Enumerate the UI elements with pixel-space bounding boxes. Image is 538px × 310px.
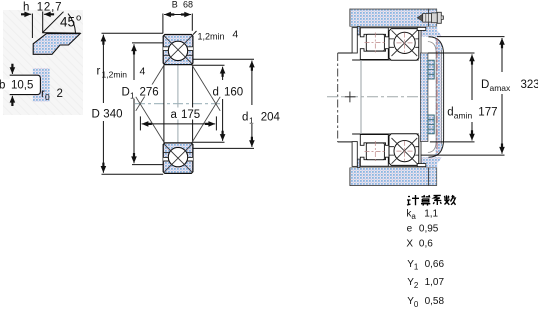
grease nipple (417, 12, 443, 23)
center vertical line (177, 61, 179, 148)
groove ring section body (33, 68, 50, 102)
svg-text:0: 0 (45, 92, 50, 102)
svg-text:0,66: 0,66 (425, 259, 445, 270)
label D 340 (91, 108, 123, 120)
housing top band (350, 9, 438, 27)
D_amax dim line (501, 38, 503, 72)
label d 160 (212, 85, 244, 97)
QJ bearing bottom (right drawing) (389, 134, 419, 166)
groove outline (10, 75, 41, 94)
svg-text:amax: amax (490, 83, 512, 93)
cover flange inner arc top (428, 42, 436, 54)
ball bottom (168, 147, 187, 166)
D top extension (102, 32, 164, 34)
housing-cover joint line top (428, 9, 430, 27)
contact X lines through bottom ball (164, 144, 192, 172)
gray panel top-left (3, 10, 83, 115)
d1 bottom extension (193, 147, 254, 149)
svg-text:1,2min: 1,2min (102, 70, 128, 80)
svg-text:177: 177 (478, 107, 497, 119)
svg-text:4: 4 (232, 28, 238, 40)
contact X lines through top ball (164, 36, 192, 64)
raceway gap left (top) (163, 47, 169, 50)
45 degree chamfer line (43, 12, 64, 33)
d_amin bottom extension (430, 141, 475, 143)
d bottom extension (193, 141, 225, 143)
housing shoulder top (357, 27, 360, 35)
svg-text:2: 2 (414, 281, 419, 290)
svg-text:204: 204 (261, 112, 281, 124)
svg-text:a: a (171, 109, 178, 121)
bolt circle dash-dot line (436, 38, 438, 156)
h arrow left (22, 13, 32, 15)
D1 dim line (133, 44, 135, 80)
svg-text:o: o (76, 13, 81, 24)
svg-text:X: X (406, 238, 413, 249)
bolt bottom (428, 115, 434, 134)
B ext line right (191, 14, 193, 31)
svg-text:1: 1 (130, 91, 135, 101)
b arrow top (11, 64, 13, 74)
B ext line left (162, 14, 164, 34)
spacer ring top (352, 28, 357, 53)
horizontal centerline (135, 103, 220, 105)
housing shoulder bottom (357, 159, 360, 167)
cover web strip (420, 53, 428, 142)
svg-text:D: D (481, 79, 489, 91)
cover flange strip edges (436, 50, 441, 144)
housing-cover joint line bottom (428, 168, 430, 186)
raceway gap right (top) (187, 47, 193, 50)
svg-text:r: r (97, 66, 101, 78)
算 (421, 195, 430, 206)
svg-text:D: D (92, 109, 100, 121)
svg-text:1: 1 (414, 263, 419, 272)
d_amin dim line (471, 54, 473, 100)
cover inner lip edge top (420, 30, 422, 53)
cover inner lip edge bottom (420, 142, 422, 164)
系 (433, 195, 441, 205)
leader 1,2min top right (193, 31, 197, 35)
svg-text:4: 4 (140, 66, 146, 78)
bore vertical line right (192, 65, 194, 143)
svg-text:323: 323 (521, 79, 538, 91)
b arrow bottom (11, 96, 13, 104)
D dim line (102, 35, 104, 103)
bottom ring block (163, 143, 193, 174)
raceway gap right (bottom) (187, 158, 193, 161)
cover corner section bottom (421, 157, 437, 167)
chamfer ring section body (33, 33, 80, 55)
contact line right-down (top ring to vertex) (192, 65, 221, 111)
d1 top extension (193, 58, 254, 60)
cylindrical roller bearing bottom (360, 135, 388, 167)
shaft shoulder top line (338, 52, 352, 54)
svg-text:0,58: 0,58 (425, 296, 445, 307)
cover flange outer outline (428, 37, 443, 158)
svg-text:160: 160 (224, 87, 243, 99)
housing bore line top (360, 27, 418, 29)
shaft end dash-dot line (337, 53, 339, 142)
svg-text:0,6: 0,6 (419, 238, 433, 249)
QJ bearing top (right drawing) (389, 29, 419, 61)
svg-text:a: a (411, 212, 416, 221)
B dim line with arrows (164, 14, 178, 16)
shaft seat line top (352, 59, 419, 61)
svg-text:45: 45 (60, 15, 75, 30)
svg-text:1,2min: 1,2min (198, 31, 225, 41)
cover flange curved section band (428, 32, 439, 163)
top ring block (163, 35, 193, 65)
contact line right-up (bottom ring to vertex) (192, 97, 221, 143)
svg-text:0,95: 0,95 (419, 223, 439, 234)
contact line left-down (top ring to vertex) (136, 65, 165, 111)
housing bore line bottom (360, 165, 418, 167)
title 计算系数 (drawn strokes) (407, 195, 456, 206)
svg-text:amin: amin (454, 111, 473, 121)
svg-text:276: 276 (140, 87, 159, 99)
svg-text:h: h (23, 2, 29, 14)
svg-text:0: 0 (414, 300, 419, 309)
d1 dim line (251, 61, 253, 105)
angle arc (68, 14, 76, 33)
svg-text:b: b (0, 80, 5, 92)
a dim line (142, 123, 178, 125)
label d_amin 177 (446, 105, 497, 119)
shaft step edge line (360, 60, 362, 134)
label D_amax 323 (480, 76, 502, 90)
h extension line 1 (31, 14, 33, 39)
cover lip top (417, 27, 426, 30)
svg-text:D: D (122, 87, 130, 99)
a ext line right (215, 116, 217, 130)
shaft seat line bottom (352, 133, 419, 135)
d top extension (193, 64, 225, 66)
bore vertical line left (163, 65, 165, 143)
h extension line 2 (42, 12, 44, 33)
d_amin top extension (428, 52, 475, 54)
a ext line left (139, 116, 141, 130)
label d1 204 (241, 110, 279, 123)
label b 10,5 (0, 80, 32, 91)
shaft shoulder (338, 53, 352, 142)
raceway gap left (bottom) (163, 158, 169, 161)
svg-text:1: 1 (249, 116, 254, 126)
svg-text:e: e (407, 223, 413, 234)
svg-text:1,07: 1,07 (425, 277, 445, 288)
d dim line (222, 67, 224, 80)
shaft body (352, 60, 430, 134)
bolt top (428, 60, 434, 79)
svg-text:12,7: 12,7 (37, 2, 63, 14)
spacer ring bottom (352, 142, 357, 167)
svg-text:d: d (447, 107, 453, 119)
D1 bottom extension (132, 164, 163, 166)
svg-text:1,1: 1,1 (424, 208, 438, 219)
svg-text:2: 2 (57, 88, 63, 100)
label a 175 (170, 108, 199, 120)
shaft shoulder bottom line (338, 141, 352, 143)
cylindrical roller bearing top (360, 28, 388, 60)
white outside bottom flange arc (428, 139, 448, 157)
svg-text:d: d (213, 87, 219, 99)
D bottom extension (102, 173, 164, 175)
svg-text:d: d (242, 112, 248, 124)
svg-text:340: 340 (103, 109, 122, 121)
cover flange inner arc bottom (428, 141, 436, 153)
white outside top flange arc (428, 37, 448, 55)
svg-text:68: 68 (183, 0, 193, 9)
contact line left-up (bottom ring to vertex) (136, 97, 165, 143)
cover lip bottom (417, 164, 426, 167)
D1 top extension (132, 42, 163, 44)
D_amax top extension (437, 36, 505, 38)
ball top (168, 41, 187, 60)
数 (444, 195, 456, 205)
cover corner section top (421, 27, 437, 37)
svg-text:10,5: 10,5 (11, 80, 33, 92)
h arrow right (44, 13, 53, 15)
axis centerline (right drawing) (327, 96, 436, 98)
D_amax bottom extension (421, 154, 505, 156)
svg-text:175: 175 (181, 109, 200, 121)
svg-text:B: B (172, 0, 178, 9)
计 (407, 195, 419, 205)
housing bottom band (350, 168, 438, 186)
label D1 276 (121, 85, 159, 97)
